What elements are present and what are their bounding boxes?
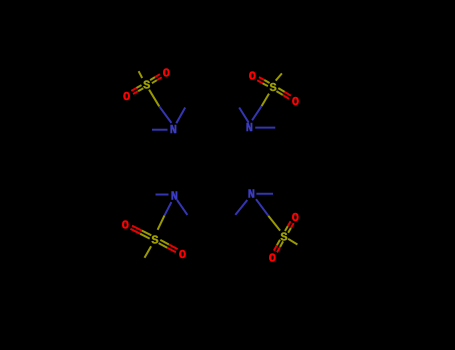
svg-text:N: N bbox=[171, 189, 178, 203]
svg-text:O: O bbox=[123, 90, 130, 104]
svg-text:O: O bbox=[292, 211, 299, 225]
svg-text:N: N bbox=[170, 123, 177, 137]
svg-text:N: N bbox=[246, 121, 253, 135]
svg-text:S: S bbox=[269, 81, 276, 95]
svg-text:S: S bbox=[280, 230, 287, 244]
svg-text:S: S bbox=[143, 78, 150, 92]
svg-text:O: O bbox=[163, 67, 170, 81]
svg-text:O: O bbox=[292, 95, 299, 109]
svg-text:O: O bbox=[249, 70, 256, 84]
svg-text:O: O bbox=[179, 248, 186, 262]
svg-text:O: O bbox=[269, 251, 276, 265]
svg-text:O: O bbox=[122, 219, 129, 233]
svg-text:N: N bbox=[248, 188, 255, 202]
svg-text:S: S bbox=[151, 233, 158, 247]
